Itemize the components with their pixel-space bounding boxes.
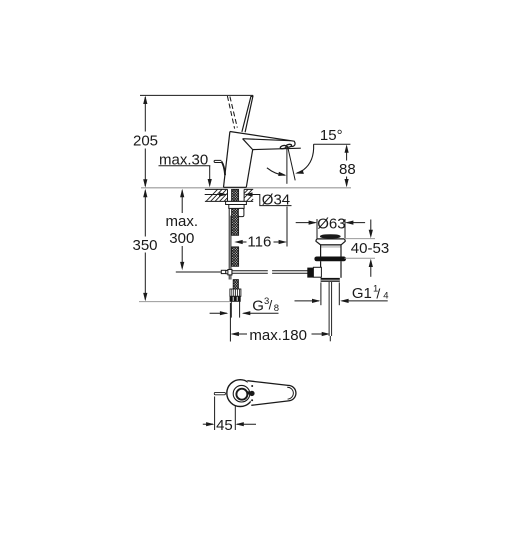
svg-text:350: 350 xyxy=(133,237,158,254)
side port for rod xyxy=(313,267,321,277)
tailpiece xyxy=(328,282,330,336)
deck mounting surface line xyxy=(141,187,351,189)
top view: joystick pin xyxy=(247,391,251,395)
svg-text:/: / xyxy=(269,298,273,313)
deck cross-section xyxy=(205,189,253,201)
top view: lever blade xyxy=(247,381,296,406)
deck hatch right xyxy=(244,189,253,201)
svg-text:/: / xyxy=(376,286,380,302)
faucet threaded shank below deck xyxy=(232,189,239,266)
mounting washer xyxy=(226,201,247,204)
svg-text:116: 116 xyxy=(247,234,271,251)
small swing arc left xyxy=(267,168,285,176)
svg-text:45: 45 xyxy=(216,417,233,434)
svg-text:Ø63: Ø63 xyxy=(317,215,345,232)
svg-text:300: 300 xyxy=(169,230,194,247)
dimension 88 xyxy=(346,147,348,186)
svg-text:Ø34: Ø34 xyxy=(262,191,290,208)
top view: left stub pin xyxy=(214,392,225,394)
pull knob hook on body left xyxy=(214,160,221,162)
dimension dia 63 xyxy=(316,219,318,239)
svg-text:15°: 15° xyxy=(320,127,343,144)
faucet body outline xyxy=(224,132,301,188)
leader to label 34 xyxy=(252,195,292,206)
svg-text:G1: G1 xyxy=(352,285,372,302)
svg-text:max.180: max.180 xyxy=(249,327,307,344)
shoulder locknut xyxy=(321,278,340,282)
pop-up rod horizontal xyxy=(176,271,222,273)
aerator outlet ovals xyxy=(280,144,292,150)
svg-text:8: 8 xyxy=(274,303,279,314)
aerator tilted 15 deg line xyxy=(288,146,296,180)
top view: handle base circle xyxy=(227,380,254,407)
svg-text:max.: max. xyxy=(166,213,199,230)
top view: inner ring xyxy=(233,385,250,402)
hose tab xyxy=(238,208,244,216)
dimension 350 xyxy=(144,191,146,300)
mounting nut xyxy=(229,205,244,209)
big swing arc from 15 ref line xyxy=(297,144,314,173)
dimension max.180 xyxy=(231,332,239,336)
dimension 116 xyxy=(286,207,288,247)
svg-text:G: G xyxy=(252,298,264,315)
svg-text:4: 4 xyxy=(383,291,388,302)
svg-text:88: 88 xyxy=(339,161,356,178)
dimension 45 xyxy=(214,397,216,431)
dome cap xyxy=(321,235,339,237)
drain body lower xyxy=(320,261,322,278)
extension line handle tip level xyxy=(140,94,253,96)
aerator vertical line xyxy=(286,149,288,184)
handle lever dashed alternate position xyxy=(227,96,237,129)
svg-text:205: 205 xyxy=(133,133,158,150)
handle lever solid xyxy=(242,96,253,132)
rubber gasket xyxy=(314,257,346,262)
dimension arrows hole dia 34 xyxy=(205,194,226,196)
lower reference line at hose end xyxy=(139,301,230,303)
top view: inner circle thick xyxy=(236,389,247,400)
dimension G 3/8 xyxy=(210,312,227,314)
flange xyxy=(316,239,345,245)
15 degree reference line xyxy=(314,143,351,145)
max.180 extension line left xyxy=(229,303,231,342)
label G1 1/4 xyxy=(295,300,320,302)
dimension 205 xyxy=(144,97,146,186)
dimension 40-53 xyxy=(344,238,375,240)
svg-text:40-53: 40-53 xyxy=(351,240,389,257)
deck hatch left xyxy=(206,189,228,201)
drain body upper xyxy=(320,245,322,257)
lift rod vertical xyxy=(229,208,231,279)
dimension max.300 xyxy=(181,191,183,269)
G1 1/4 extension lines xyxy=(320,282,322,305)
hose lower: crimp, nut, tube xyxy=(233,280,238,289)
